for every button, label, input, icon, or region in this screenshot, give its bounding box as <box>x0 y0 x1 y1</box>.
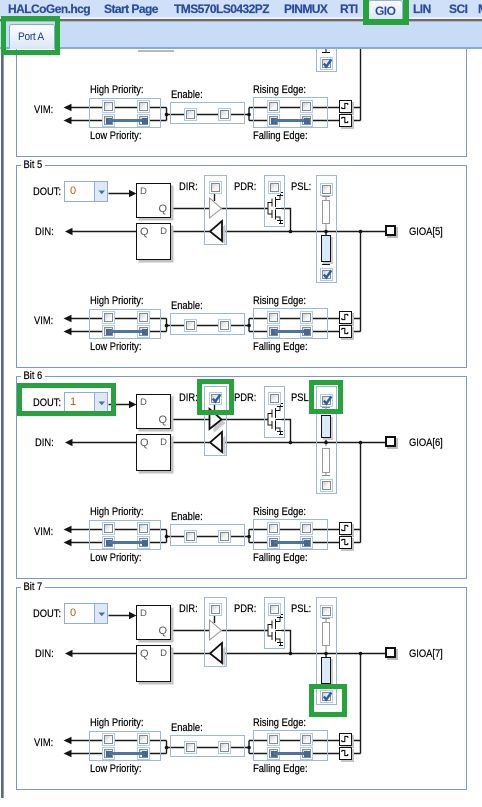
wire pad to edge detectors <box>351 654 361 754</box>
group box Bit 6 <box>16 376 467 579</box>
wire priority box rails <box>89 319 161 332</box>
checkbox rising edge A <box>267 100 280 113</box>
group box Bit 7 <box>16 587 467 790</box>
label DOUT <box>33 186 61 198</box>
separator line <box>0 19 482 21</box>
checkbox falling edge A <box>267 536 280 549</box>
buffer input (always on) <box>214 436 226 456</box>
label Low Priority <box>90 341 141 353</box>
checkbox high priority B <box>137 100 150 113</box>
checkbox high priority A <box>102 311 115 324</box>
checkbox PDR <box>268 181 281 194</box>
checkbox falling edge A <box>267 747 280 760</box>
label VIM <box>34 104 53 116</box>
label Enable <box>171 722 203 734</box>
junction node PDR drain <box>289 652 293 656</box>
tab TMS570LS0432PZ <box>174 3 269 16</box>
wire PDR drain to pad net <box>282 631 291 654</box>
wire VIM arrows <box>71 319 89 332</box>
wire FF Q to output buffer <box>171 208 210 210</box>
label DIR <box>179 181 198 193</box>
label DIR <box>179 392 198 404</box>
wire pad to edge detectors <box>351 0 361 121</box>
checkbox PDR <box>268 392 281 405</box>
label DIN <box>35 437 54 449</box>
label GIOA[5] <box>409 226 443 238</box>
wire pull-down to net <box>325 232 327 236</box>
label High Priority <box>90 506 144 518</box>
wire DOUT to flip-flop <box>109 615 130 617</box>
label DOUT <box>33 608 61 620</box>
edge select box <box>253 308 328 339</box>
junction node PSL <box>324 230 328 234</box>
highlight GIO tab (green) <box>363 0 409 25</box>
label Falling Edge <box>253 763 308 775</box>
wire VIM arrows <box>71 741 89 754</box>
group box Bit 4 <box>16 0 467 157</box>
checkbox PSL pull-down <box>320 690 333 703</box>
wire pull-down to net <box>325 443 327 447</box>
PSL control box <box>316 597 337 705</box>
checkbox PSL pull-up <box>320 394 333 407</box>
checkbox rising edge B <box>300 100 313 113</box>
checkbox enable B <box>218 319 231 332</box>
highlight Port A tab (green) <box>1 16 60 55</box>
group label Bit 6 <box>21 370 45 382</box>
wire FF Q to output buffer <box>171 419 210 421</box>
checkbox low priority B <box>137 747 150 760</box>
wire pull-up to net <box>325 646 327 654</box>
tab SCI <box>449 3 467 16</box>
checkbox falling edge B <box>300 325 313 338</box>
wire enable rail <box>170 536 249 538</box>
buffer output driver (disabled) <box>210 620 222 640</box>
PDR control box <box>264 175 286 227</box>
junction node PSL <box>324 652 328 656</box>
VIM priority box <box>89 520 161 550</box>
VIM priority box <box>89 309 161 339</box>
wire enable-edge junction <box>249 108 253 121</box>
checkbox DIR <box>209 392 222 405</box>
label Falling Edge <box>253 552 308 564</box>
top tab bar <box>0 0 482 17</box>
wire PSL pull-up top terminal <box>322 619 330 623</box>
highlight DOUT (green) <box>17 383 116 416</box>
wire enable-edge junction <box>249 741 253 754</box>
tab PINMUX <box>284 3 327 16</box>
checkbox enable B <box>218 108 231 121</box>
wires Bit 5 <box>0 155 482 385</box>
label VIM <box>34 526 53 538</box>
wire pull-up to net <box>325 435 327 443</box>
label Rising Edge <box>253 295 306 307</box>
edge select box <box>253 519 328 550</box>
checkbox low priority B <box>137 114 150 127</box>
wire pad net <box>222 231 385 233</box>
wire enable rail <box>170 325 249 327</box>
wire DOUT to flip-flop <box>109 193 130 195</box>
checkbox PSL pull-up <box>320 605 333 618</box>
edge select box <box>253 730 328 761</box>
edge detector falling <box>339 114 352 127</box>
wire priority-enable junction <box>161 319 170 332</box>
selected route falling edge <box>271 751 277 757</box>
checkbox rising edge A <box>267 522 280 535</box>
PDR control box <box>264 386 286 438</box>
wire PDR drain to pad net <box>282 420 291 443</box>
checkbox enable A <box>184 530 197 543</box>
wire pull-down bottom terminal <box>317 47 337 67</box>
label Enable <box>171 300 203 312</box>
checkbox rising edge A <box>267 733 280 746</box>
wire edge box rails <box>253 319 339 332</box>
tab MibSPI1 <box>478 3 482 16</box>
label VIM <box>34 315 53 327</box>
flip-flop DIN Bit 7 <box>136 645 171 682</box>
wire VIM arrows <box>71 530 89 543</box>
edge detector rising <box>339 100 352 113</box>
wire enable-edge junction <box>249 530 253 543</box>
DOUT dropdown value 0 <box>64 603 108 624</box>
resistor pull-down <box>322 448 330 473</box>
wires Bit 7 <box>0 577 482 807</box>
PSL control box <box>316 386 337 494</box>
Port A tab strip <box>0 22 482 47</box>
buffer output driver (enabled) <box>214 413 226 433</box>
checkbox falling edge B <box>300 536 313 549</box>
wire priority-enable junction <box>161 530 170 543</box>
selected route low priority <box>106 540 112 546</box>
label Enable <box>171 511 203 523</box>
resistor pull-up <box>322 200 330 225</box>
label Low Priority <box>90 552 141 564</box>
label Falling Edge <box>253 341 308 353</box>
wire enable rail <box>170 114 249 116</box>
checkbox enable B <box>218 741 231 754</box>
checkbox rising edge B <box>300 522 313 535</box>
edge detector falling <box>339 325 352 338</box>
wire DOUT to flip-flop <box>109 404 130 406</box>
wire buffer to PDR gate <box>221 630 268 632</box>
checkbox low priority A <box>102 747 115 760</box>
checkbox high priority A <box>102 522 115 535</box>
label DIR <box>179 603 198 615</box>
VIM enable box <box>170 735 245 757</box>
wires Bit 4 <box>0 0 482 174</box>
DIR control box <box>204 597 227 667</box>
wire input buffer to DIN FF <box>171 231 211 233</box>
label GIOA[7] <box>409 648 443 660</box>
checkbox enable A <box>184 108 197 121</box>
wire VIM arrows <box>71 108 89 121</box>
checkbox falling edge A <box>267 325 280 338</box>
flip-flop DIN Bit 6 <box>136 434 171 471</box>
wire PSL pull-up top terminal <box>322 408 330 412</box>
wire DIR checkbox stub <box>214 194 216 202</box>
checkbox falling edge B <box>300 747 313 760</box>
wire priority box rails <box>89 530 161 543</box>
edge detector falling <box>339 536 352 549</box>
wire pad to edge detectors <box>351 443 361 543</box>
wire edge box rails <box>253 530 339 543</box>
checkbox low priority A <box>102 325 115 338</box>
wire priority box rails <box>89 108 161 121</box>
mosfet PDR symbol <box>268 404 283 435</box>
wire pad net <box>222 442 385 444</box>
checkbox PSL pull-up <box>320 183 333 196</box>
PDR control box <box>264 597 286 649</box>
group label Bit 5 <box>21 159 45 171</box>
wire edge box rails <box>253 108 339 121</box>
label DIN <box>35 226 54 238</box>
checkbox low priority B <box>137 536 150 549</box>
VIM priority box <box>89 98 161 128</box>
checkbox high priority B <box>137 733 150 746</box>
label Low Priority <box>90 130 141 142</box>
checkbox rising edge B <box>300 311 313 324</box>
label DOUT <box>33 397 61 409</box>
checkbox falling edge B <box>300 114 313 127</box>
label PSL <box>291 181 311 193</box>
wire edge box rails <box>253 741 339 754</box>
wires Bit 6 <box>0 366 482 596</box>
checkbox high priority B <box>137 522 150 535</box>
tab GIO (selected) <box>368 0 403 19</box>
checkbox high priority A <box>102 733 115 746</box>
flip-flop DOUT Bit 5 <box>136 183 171 218</box>
tab Start Page <box>104 3 158 16</box>
resistor pull-up <box>322 622 330 647</box>
edge select box <box>253 97 328 128</box>
checkbox DIR <box>209 603 222 616</box>
wire buffer to PDR gate <box>221 419 268 421</box>
tab Port A (selected) <box>9 24 55 49</box>
label Rising Edge <box>253 84 306 96</box>
wire pull-down to net <box>325 654 327 658</box>
checkbox enable B <box>218 530 231 543</box>
group box Bit 5 <box>16 165 467 368</box>
VIM enable box <box>170 102 245 124</box>
VIM enable box <box>170 524 245 546</box>
checkbox enable A <box>184 319 197 332</box>
selected route low priority <box>106 751 112 757</box>
label GIOA[6] <box>409 437 443 449</box>
wire pad to edge detectors <box>351 232 361 332</box>
wire enable-edge junction <box>249 319 253 332</box>
label High Priority <box>90 84 144 96</box>
wire pull-down bottom terminal <box>322 472 330 476</box>
highlight PSL checkbox (green) <box>309 380 343 415</box>
wire pad net <box>222 653 385 655</box>
wire PSL pull-up top terminal <box>322 197 330 201</box>
resistor pull-up (active) <box>321 415 332 439</box>
highlight DIR checkbox (green) <box>197 379 234 416</box>
wire input buffer to DIN FF <box>171 442 211 444</box>
label PSL <box>291 603 311 615</box>
label PDR <box>234 603 256 615</box>
label Falling Edge <box>253 130 308 142</box>
DOUT dropdown value 1 <box>64 392 108 413</box>
wire buffer to PDR gate <box>221 208 268 210</box>
wire priority box rails <box>89 741 161 754</box>
DIR control box <box>204 386 227 456</box>
flip-flop DIN Bit 5 <box>136 223 171 260</box>
VIM enable box <box>170 313 245 335</box>
edge detector rising <box>339 522 352 535</box>
checkbox PSL pull-down <box>320 479 333 492</box>
group label Bit 7 <box>21 581 45 593</box>
label High Priority <box>90 717 144 729</box>
label DIN <box>35 648 54 660</box>
mosfet PDR symbol <box>268 615 283 646</box>
resistor pull-down (active) <box>321 657 331 684</box>
checkbox PSL pull-down <box>320 57 333 70</box>
PSL control box <box>316 0 337 72</box>
checkbox DIR <box>209 181 222 194</box>
wire enable rail <box>170 747 249 749</box>
edge detector rising <box>339 311 352 324</box>
resistor pull-down (active) <box>321 235 331 262</box>
wire pull-down bottom terminal <box>322 261 330 265</box>
wire DIN arrow <box>72 231 136 233</box>
checkbox enable A <box>184 741 197 754</box>
pin GIOA[5] <box>385 225 396 236</box>
wire FF Q to output buffer <box>171 630 210 632</box>
junction node edge-detect branch <box>359 230 363 234</box>
VIM priority box <box>89 731 161 761</box>
buffer input (always on) <box>214 647 226 667</box>
junction node edge-detect branch <box>359 652 363 656</box>
wire priority-enable junction <box>161 108 170 121</box>
wire priority-enable junction <box>161 741 170 754</box>
pin GIOA[7] <box>385 647 396 658</box>
flip-flop DIN shadow remnant <box>138 50 174 52</box>
checkbox rising edge A <box>267 311 280 324</box>
flip-flop DOUT Bit 7 <box>136 605 171 640</box>
checkbox PDR <box>268 603 281 616</box>
label PSL <box>291 392 311 404</box>
wire DIR checkbox stub <box>214 405 216 413</box>
pin GIOA[6] <box>385 436 396 447</box>
checkbox low priority A <box>102 536 115 549</box>
junction node edge-detect branch <box>359 441 363 445</box>
label Rising Edge <box>253 717 306 729</box>
checkbox falling edge A <box>267 114 280 127</box>
wire DIN arrow <box>72 442 136 444</box>
tab LIN <box>413 3 431 16</box>
tab HALCoGen.hcg <box>8 3 90 16</box>
wire DIN arrow <box>72 653 136 655</box>
highlight PSL pull-down checkbox (green) <box>309 684 347 717</box>
label PDR <box>234 181 256 193</box>
flip-flop DOUT Bit 6 <box>136 394 171 429</box>
wire DIR checkbox stub <box>214 616 216 624</box>
checkbox PSL pull-down <box>320 268 333 281</box>
label Low Priority <box>90 763 141 775</box>
junction node PDR drain <box>289 441 293 445</box>
mosfet PDR symbol <box>268 193 283 224</box>
selected route low priority <box>106 329 112 335</box>
label Enable <box>171 89 203 101</box>
label High Priority <box>90 295 144 307</box>
edge detector rising <box>339 733 352 746</box>
window frame left <box>1 22 3 798</box>
tab RTI <box>340 3 358 16</box>
checkbox high priority B <box>137 311 150 324</box>
label PDR <box>234 392 256 404</box>
checkbox rising edge B <box>300 733 313 746</box>
wire pull-down bottom terminal <box>322 683 330 687</box>
selected route falling edge <box>271 540 277 546</box>
DOUT dropdown value 0 <box>64 181 108 202</box>
wire input buffer to DIN FF <box>171 653 211 655</box>
DIR control box <box>204 175 227 245</box>
checkbox low priority B <box>137 325 150 338</box>
label Rising Edge <box>253 506 306 518</box>
wire pull-up to net <box>325 224 327 232</box>
selected route falling edge <box>271 118 277 124</box>
buffer output driver (disabled) <box>210 198 222 218</box>
checkbox low priority A <box>102 114 115 127</box>
PSL control box <box>316 175 337 283</box>
checkbox high priority A <box>102 100 115 113</box>
edge detector falling <box>339 747 352 760</box>
buffer input (always on) <box>214 225 226 245</box>
selected route falling edge <box>271 329 277 335</box>
label VIM <box>34 737 53 749</box>
selected route low priority <box>106 118 112 124</box>
junction node PDR drain <box>289 230 293 234</box>
wire PDR drain to pad net <box>282 209 291 232</box>
junction node PSL <box>324 441 328 445</box>
